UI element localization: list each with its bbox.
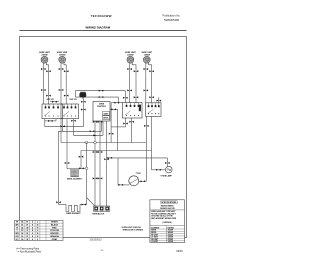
svg-text:TEF303AWW: TEF303AWW — [91, 14, 112, 18]
wire bus3 riser to control — [102, 121, 104, 135]
surface switch S3 lever — [125, 111, 131, 115]
svg-text:ORANGE: ORANGE — [50, 235, 60, 238]
wire SU2 right lead to broil — [66, 119, 68, 169]
wire drop to thermostat left — [117, 158, 119, 185]
connector plug jumper — [52, 101, 57, 103]
splice arrow bus3 — [93, 135, 97, 137]
svg-text:TERM BLOCK: TERM BLOCK — [92, 213, 105, 215]
wire switch bottom stub 2 — [55, 119, 57, 121]
connector plug SU2 left lead upper — [59, 68, 64, 70]
svg-text:WIRING DIAGRAM: WIRING DIAGRAM — [86, 25, 111, 29]
diagram border frame — [20, 37, 187, 238]
svg-text:316203013: 316203013 — [90, 239, 103, 242]
surface switch S2 lever — [63, 111, 69, 115]
connector plug motor drop lower — [81, 109, 86, 111]
connector plug broil feed — [65, 162, 70, 164]
wire control to S3 jumper — [111, 102, 122, 104]
connector plug SU3 right lead lower — [134, 96, 139, 98]
terminal block TB1 — [94, 206, 110, 211]
connector plug wire N lower — [98, 177, 103, 179]
svg-text:*TOD: *TOD — [136, 173, 142, 175]
svg-text:BROIL: BROIL — [103, 118, 108, 120]
connector plug S4 stub — [157, 100, 162, 102]
svg-text:CONTROL: CONTROL — [97, 106, 107, 108]
svg-text:REPLACEMENT WIRING USED: REPLACEMENT WIRING USED — [151, 217, 177, 220]
connector plug H1 — [48, 120, 53, 122]
wire L1 control to terminal block — [94, 121, 96, 206]
wire bus2 left drop to bake — [58, 131, 60, 204]
wire SU4 left lead — [145, 63, 147, 103]
svg-text:GRAY: GRAY — [52, 238, 58, 241]
wire bus4 horizontal — [61, 142, 146, 144]
connector plug SU3 right lead upper — [134, 70, 139, 72]
connector plug control right drop — [109, 133, 114, 135]
svg-text:SURF SW: SURF SW — [46, 99, 54, 101]
connector plug wire L1 mid — [93, 151, 98, 153]
surface switch S4 lever — [148, 109, 154, 113]
surface switch S3 box — [123, 103, 143, 119]
wire SU1 left lead — [42, 63, 44, 104]
svg-text:LR UNIT: LR UNIT — [151, 241, 159, 243]
surface switch S4 box terminals — [148, 103, 160, 114]
wire neutral diagonal to block — [87, 198, 95, 206]
connector plug switch stub — [60, 125, 65, 127]
wire bus3 horizontal — [74, 134, 104, 136]
wire junction riser — [86, 143, 88, 168]
connector plug bus2 mid — [90, 130, 95, 132]
wire control right drop — [110, 103, 112, 143]
connector plug bake feed — [56, 201, 61, 203]
connector plug bake right — [82, 204, 87, 206]
wire broil right to junction — [78, 167, 85, 169]
connector plug thermostat left — [119, 184, 124, 186]
oven light DS1 — [166, 166, 173, 173]
connector plug SU3 left lead upper — [127, 68, 132, 70]
wire lamp top drop — [166, 158, 168, 167]
wire N control to terminal block — [99, 121, 101, 206]
connector plug SU4 right lead upper — [149, 70, 154, 72]
svg-text:BR: BR — [16, 233, 20, 235]
wire switch stub to bus4 — [60, 119, 62, 143]
wire SU2 right lead — [64, 63, 66, 105]
svg-text:SURF SW: SURF SW — [69, 99, 77, 101]
surface switch S1 lever — [44, 111, 50, 115]
wire bus5 right drop to lamp wire — [151, 151, 153, 170]
svg-text:# = Fast-moving Parts: # = Fast-moving Parts — [17, 248, 40, 251]
wire lower horizontal bus — [75, 96, 118, 98]
wire L2 control to terminal block — [106, 121, 108, 206]
svg-text:Publication No.: Publication No. — [162, 14, 180, 18]
connector plug bus5 left drop — [79, 156, 84, 158]
svg-text:5995305398: 5995305398 — [164, 18, 179, 22]
junction node bus4 right — [94, 141, 97, 144]
svg-text:BAKE ELEMENT: BAKE ELEMENT — [66, 212, 81, 215]
wire bus5 horizontal — [81, 150, 152, 152]
svg-text:* OVEN LAMP: * OVEN LAMP — [160, 174, 173, 177]
surface switch S2 box terminals — [63, 104, 76, 117]
surface unit SU2 coil — [59, 56, 66, 63]
connector plug SU1 right lead lower — [46, 95, 51, 97]
svg-text:120/240V 60HZ 3W: 120/240V 60HZ 3W — [160, 207, 175, 210]
connector plug S3 right drop — [129, 121, 134, 123]
connector plug bus6 — [108, 157, 113, 159]
wire bake left horizontal — [59, 204, 67, 206]
surface switch S3 box terminals — [126, 103, 140, 116]
wire SU3 left lead — [129, 63, 131, 103]
svg-text:W: W — [16, 222, 18, 224]
svg-text:SPECIFICATIONS: SPECIFICATIONS — [161, 201, 177, 204]
connector plug motor drop upper — [81, 101, 86, 103]
svg-text:-1-: -1- — [100, 249, 103, 252]
connector plug SU2 left lead lower — [59, 89, 64, 91]
wire bus2 riser to control — [101, 121, 103, 131]
connector plug SU1 left lead upper — [41, 68, 46, 70]
connector plug SU3 left lead lower — [127, 89, 132, 91]
broil element E2 (hatched) — [71, 169, 78, 177]
wire junction down to bake — [86, 170, 88, 205]
wire bake right horizontal — [80, 204, 87, 206]
wire bus5 left drop — [80, 151, 82, 169]
connector plug SU4 left lead upper — [144, 68, 149, 70]
connector plug wire L1 lower — [93, 177, 98, 179]
surface switch S4 box — [146, 103, 162, 117]
connector plug broil right — [79, 167, 84, 169]
wire H1 jumper — [44, 120, 56, 122]
wire S4 right drop to bus5 — [151, 116, 153, 150]
wire switch stub to bus2 — [62, 119, 64, 132]
wire bus1 horizontal — [45, 126, 84, 128]
connector plug SU1 right lead upper — [46, 70, 51, 72]
wire stub above S4 right terminal — [158, 97, 160, 103]
svg-text:WHITE: WHITE — [51, 222, 58, 224]
svg-text:YELLOW: YELLOW — [50, 230, 59, 232]
connector plug SU4 left lead lower — [144, 89, 149, 91]
surface switch S1 box terminals — [45, 104, 59, 117]
svg-text:W: W — [26, 239, 28, 241]
junction node oven circuit — [85, 167, 88, 170]
connector plug top horizontal — [99, 90, 104, 92]
wire jumper above switch box — [50, 101, 59, 103]
relay K2 box — [103, 116, 110, 120]
wire top horizontal bus — [75, 90, 125, 92]
connector plug top bus drop — [123, 97, 128, 99]
wire SU4 right lead — [149, 63, 152, 103]
relay K1 box — [103, 112, 110, 116]
surface unit SU4 coil — [143, 56, 150, 63]
connector plug control out 2 — [98, 121, 103, 123]
oven thermostat TH1 — [129, 176, 139, 186]
svg-text:( RATINGS ): ( RATINGS ) — [162, 221, 172, 224]
wiring color code table — [15, 220, 63, 241]
wire switch bottom stub 1 — [44, 119, 46, 127]
wire S3 drop to branch — [125, 118, 127, 127]
svg-text:RED: RED — [52, 227, 57, 229]
surface unit SU1 coil — [41, 56, 48, 63]
connector plug thermostat right — [141, 180, 146, 182]
connector plug control out 1 — [93, 121, 98, 123]
wire bus6 horizontal to lamp — [107, 157, 168, 159]
wire bus2 horizontal — [59, 130, 102, 132]
svg-text:BK: BK — [16, 224, 20, 226]
connector plug SU2 right lead upper — [64, 70, 69, 72]
wire motor drop — [82, 97, 84, 126]
wire SU2 left lead — [60, 63, 62, 104]
oven control U1 box — [93, 102, 110, 122]
header rule — [20, 29, 187, 31]
connector plug S4 drop — [144, 125, 149, 127]
motor M1 (oven vent) — [79, 92, 86, 99]
connector plug wire L2 lower — [104, 158, 109, 160]
wire S3 branch horizontal — [111, 126, 125, 128]
svg-text:BLACK: BLACK — [51, 223, 59, 226]
svg-text:BROIL ELEMENT: BROIL ELEMENT — [67, 179, 83, 181]
wire switch stub to bus3 — [73, 119, 75, 136]
connector plug SU2 right lead lower — [64, 95, 69, 97]
wire thermostat right — [139, 180, 147, 182]
wire SU1 right lead — [46, 63, 48, 105]
surface switch S2 box — [61, 104, 79, 119]
svg-text:* = Non-Illustrated Parts: * = Non-Illustrated Parts — [17, 251, 42, 254]
svg-text:08/00: 08/00 — [176, 250, 183, 253]
surface switch S3 inner marks — [139, 105, 141, 112]
wire into switch box A left — [118, 97, 120, 103]
svg-text:OR: OR — [16, 236, 20, 238]
connector plug SU4 right lead lower — [149, 96, 154, 98]
connector plug SU1 left lead lower — [41, 89, 46, 91]
connector plug control-S3 jumper — [115, 102, 120, 104]
svg-text:W: W — [26, 227, 28, 229]
wire S3 right drop to bus4 — [131, 118, 133, 143]
svg-text:BROWN: BROWN — [50, 233, 59, 235]
wire stub drop to bus5 — [117, 109, 119, 150]
connector plug lower horizontal — [99, 96, 104, 98]
surface unit SU3 coil — [127, 56, 134, 63]
junction node bus4 left — [85, 141, 88, 144]
connector plug lamp left — [156, 169, 161, 171]
svg-text:1250W: 1250W — [168, 241, 174, 243]
wire vent motor left riser — [74, 91, 76, 98]
connector plug wire N mid — [98, 151, 103, 153]
wire control right stub — [110, 108, 118, 110]
svg-text:WHEN DOOR IS OPENED: WHEN DOOR IS OPENED — [123, 229, 144, 231]
specifications box — [150, 200, 185, 243]
wire S4 drop through bus4 to thermostat — [145, 116, 147, 181]
wire lamp left — [152, 169, 166, 171]
wire SU3 right lead — [132, 63, 136, 103]
wire thermostat left — [118, 184, 129, 186]
wire into switch box A from top bus — [124, 91, 126, 103]
connector plug S3 drop — [123, 123, 128, 125]
bake element E1 (folded) — [66, 205, 80, 212]
surface switch S1 box — [42, 104, 63, 119]
wire broil entry — [67, 168, 71, 170]
connector plug control right stub — [111, 108, 116, 110]
connector plug S2 bottom stub — [71, 120, 76, 122]
connector plug lamp top — [165, 162, 170, 164]
